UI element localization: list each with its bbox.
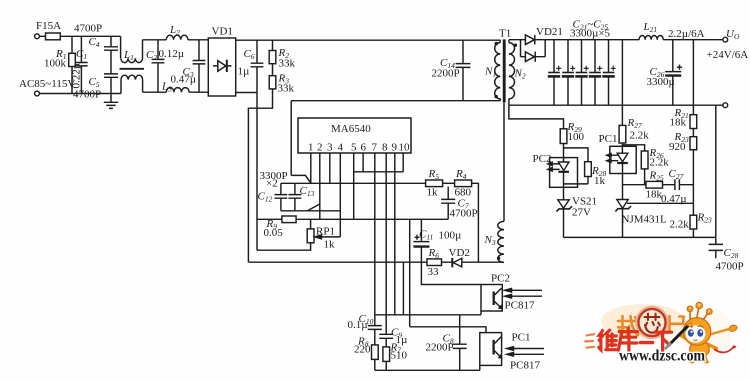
- svg-text:www.dzsc.com: www.dzsc.com: [619, 348, 705, 365]
- svg-text:8: 8: [382, 142, 388, 154]
- svg-text:220: 220: [354, 344, 371, 356]
- svg-text:VD2: VD2: [449, 247, 470, 259]
- svg-text:0.05: 0.05: [264, 227, 284, 239]
- svg-text:AC85~115V: AC85~115V: [19, 78, 75, 90]
- svg-text:1µ: 1µ: [396, 334, 408, 346]
- svg-text:3300µ: 3300µ: [647, 76, 675, 88]
- svg-text:PC2: PC2: [533, 153, 552, 165]
- svg-text:4700P: 4700P: [73, 89, 101, 101]
- svg-text:100µ: 100µ: [439, 230, 462, 242]
- svg-text:2.2k: 2.2k: [670, 219, 690, 231]
- svg-text:VD21: VD21: [536, 26, 563, 38]
- svg-text:VD1: VD1: [212, 26, 233, 38]
- svg-text:5: 5: [351, 142, 357, 154]
- svg-text:PC817: PC817: [505, 300, 535, 312]
- svg-text:0.47µ: 0.47µ: [171, 74, 197, 86]
- svg-text:MA6540: MA6540: [331, 123, 371, 135]
- svg-text:PC2: PC2: [491, 273, 510, 285]
- svg-text:0.47µ: 0.47µ: [661, 193, 687, 205]
- svg-text:100k: 100k: [44, 58, 67, 70]
- svg-text:×2: ×2: [266, 178, 278, 190]
- svg-text:27V: 27V: [572, 207, 591, 219]
- svg-text:4: 4: [338, 142, 344, 154]
- svg-text:10: 10: [399, 142, 411, 154]
- svg-text:1µ: 1µ: [238, 66, 250, 78]
- svg-text:PC1: PC1: [599, 133, 618, 145]
- svg-text:2.2k: 2.2k: [650, 157, 670, 169]
- svg-text:4700P: 4700P: [74, 23, 102, 35]
- svg-text:+24V/6A: +24V/6A: [707, 49, 749, 61]
- svg-text:F15A: F15A: [36, 20, 61, 32]
- svg-text:3300µ×5: 3300µ×5: [570, 28, 611, 40]
- svg-text:4700P: 4700P: [450, 208, 478, 220]
- svg-text:1k: 1k: [324, 239, 336, 251]
- svg-text:7: 7: [372, 142, 378, 154]
- svg-text:T1: T1: [499, 28, 511, 40]
- svg-text:0.1µ: 0.1µ: [348, 319, 368, 331]
- svg-text:33: 33: [428, 266, 440, 278]
- svg-text:4700P: 4700P: [716, 261, 744, 273]
- svg-text:0.12µ: 0.12µ: [159, 48, 185, 60]
- svg-text:2200P: 2200P: [432, 68, 460, 80]
- svg-text:510: 510: [391, 350, 408, 362]
- svg-text:2.2k: 2.2k: [630, 130, 650, 142]
- svg-text:1: 1: [308, 142, 314, 154]
- svg-text:NJM431L: NJM431L: [622, 214, 668, 226]
- svg-text:33k: 33k: [279, 58, 296, 70]
- svg-text:1k: 1k: [427, 187, 439, 199]
- svg-text:6: 6: [361, 142, 367, 154]
- svg-text:100: 100: [568, 131, 585, 143]
- svg-text:33k: 33k: [278, 83, 295, 95]
- svg-text:18k: 18k: [670, 117, 687, 129]
- svg-text:2.2µ/6A: 2.2µ/6A: [668, 28, 705, 40]
- svg-text:PC1: PC1: [512, 332, 531, 344]
- svg-text:1k: 1k: [594, 175, 606, 187]
- svg-text:2200P: 2200P: [426, 342, 454, 354]
- svg-text:2: 2: [317, 142, 323, 154]
- svg-text:RP1: RP1: [316, 226, 335, 238]
- svg-text:9: 9: [392, 142, 398, 154]
- svg-text:920: 920: [669, 141, 686, 153]
- svg-text:3: 3: [327, 142, 333, 154]
- svg-text:PC817: PC817: [510, 360, 540, 372]
- svg-text:18k: 18k: [646, 189, 663, 201]
